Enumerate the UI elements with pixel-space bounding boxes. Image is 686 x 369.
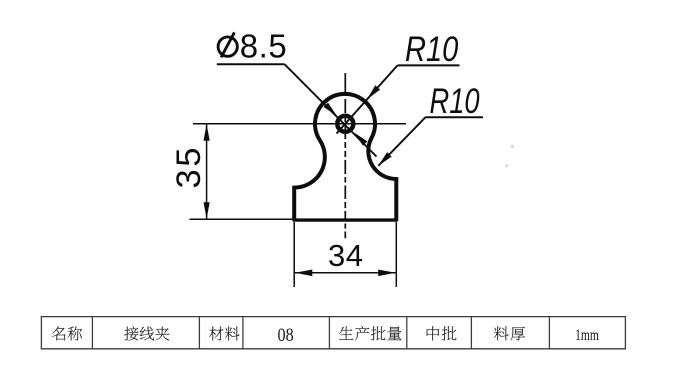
phi symbol: ellipse <box>218 37 237 56</box>
horizontal centerline / top extension line of dim 35 <box>193 123 406 125</box>
table cell: 材料 <box>209 326 223 340</box>
table cell: 生产批量 <box>339 326 353 339</box>
table cell: 名称 <box>52 326 66 340</box>
svg-text:1mm: 1mm <box>575 327 599 344</box>
table column line 2 <box>198 317 200 349</box>
scan speck 2 <box>505 164 508 167</box>
table column line 3 <box>242 317 244 349</box>
leader R10 right: shoulder <box>426 116 484 118</box>
leader R10 right: diagonal to fillet <box>378 117 425 166</box>
dim 34 extension line left <box>293 222 295 287</box>
svg-text:08: 08 <box>278 324 294 346</box>
svg-text:R10: R10 <box>430 82 481 121</box>
phi8.5 arrow upper (points at hole) <box>324 103 337 116</box>
bottom extension line of dim 35 <box>190 218 297 220</box>
dimension 34: horizontal dimension line <box>294 272 396 274</box>
dimension 35: vertical dimension line <box>206 124 208 219</box>
hole circle (phi 8.5) <box>337 116 353 132</box>
table column line 6 <box>470 317 472 349</box>
leader R10 top: shoulder <box>398 64 460 66</box>
table column line 4 <box>328 317 330 349</box>
svg-text:34: 34 <box>328 238 363 273</box>
table cell: 接线夹 <box>124 327 138 341</box>
table cell: 料厚 <box>494 326 509 340</box>
table column line 5 <box>406 317 408 349</box>
vertical centerline (dashed) <box>344 73 346 238</box>
table cell: 中批 <box>427 326 440 340</box>
dim 34 arrow right <box>378 270 396 277</box>
title table frame <box>41 316 626 318</box>
phi symbol: slash <box>221 32 234 57</box>
svg-text:R10: R10 <box>405 29 458 68</box>
dim 34 extension line right <box>395 222 397 287</box>
leader phi8.5: shoulder under text <box>217 63 285 65</box>
leader phi8.5: diagonal through hole <box>285 64 377 156</box>
dim 35 arrow down <box>204 202 210 219</box>
part outline: clip body with round head <box>294 94 396 221</box>
R10 top arrow <box>367 85 380 99</box>
phi8.5 arrow lower (points at hole) <box>354 133 367 146</box>
svg-text:35: 35 <box>170 145 208 188</box>
table column line 1 <box>91 317 93 349</box>
R10 right arrow <box>378 152 391 166</box>
scan speck <box>511 145 514 148</box>
table column line 7 <box>548 317 550 349</box>
dim 35 arrow up <box>204 124 210 141</box>
dim 34 arrow left <box>295 270 313 277</box>
leader R10 top: diagonal to head circle through centre <box>337 65 398 133</box>
svg-text:8.5: 8.5 <box>240 27 287 64</box>
part bottom edge <box>293 218 398 221</box>
